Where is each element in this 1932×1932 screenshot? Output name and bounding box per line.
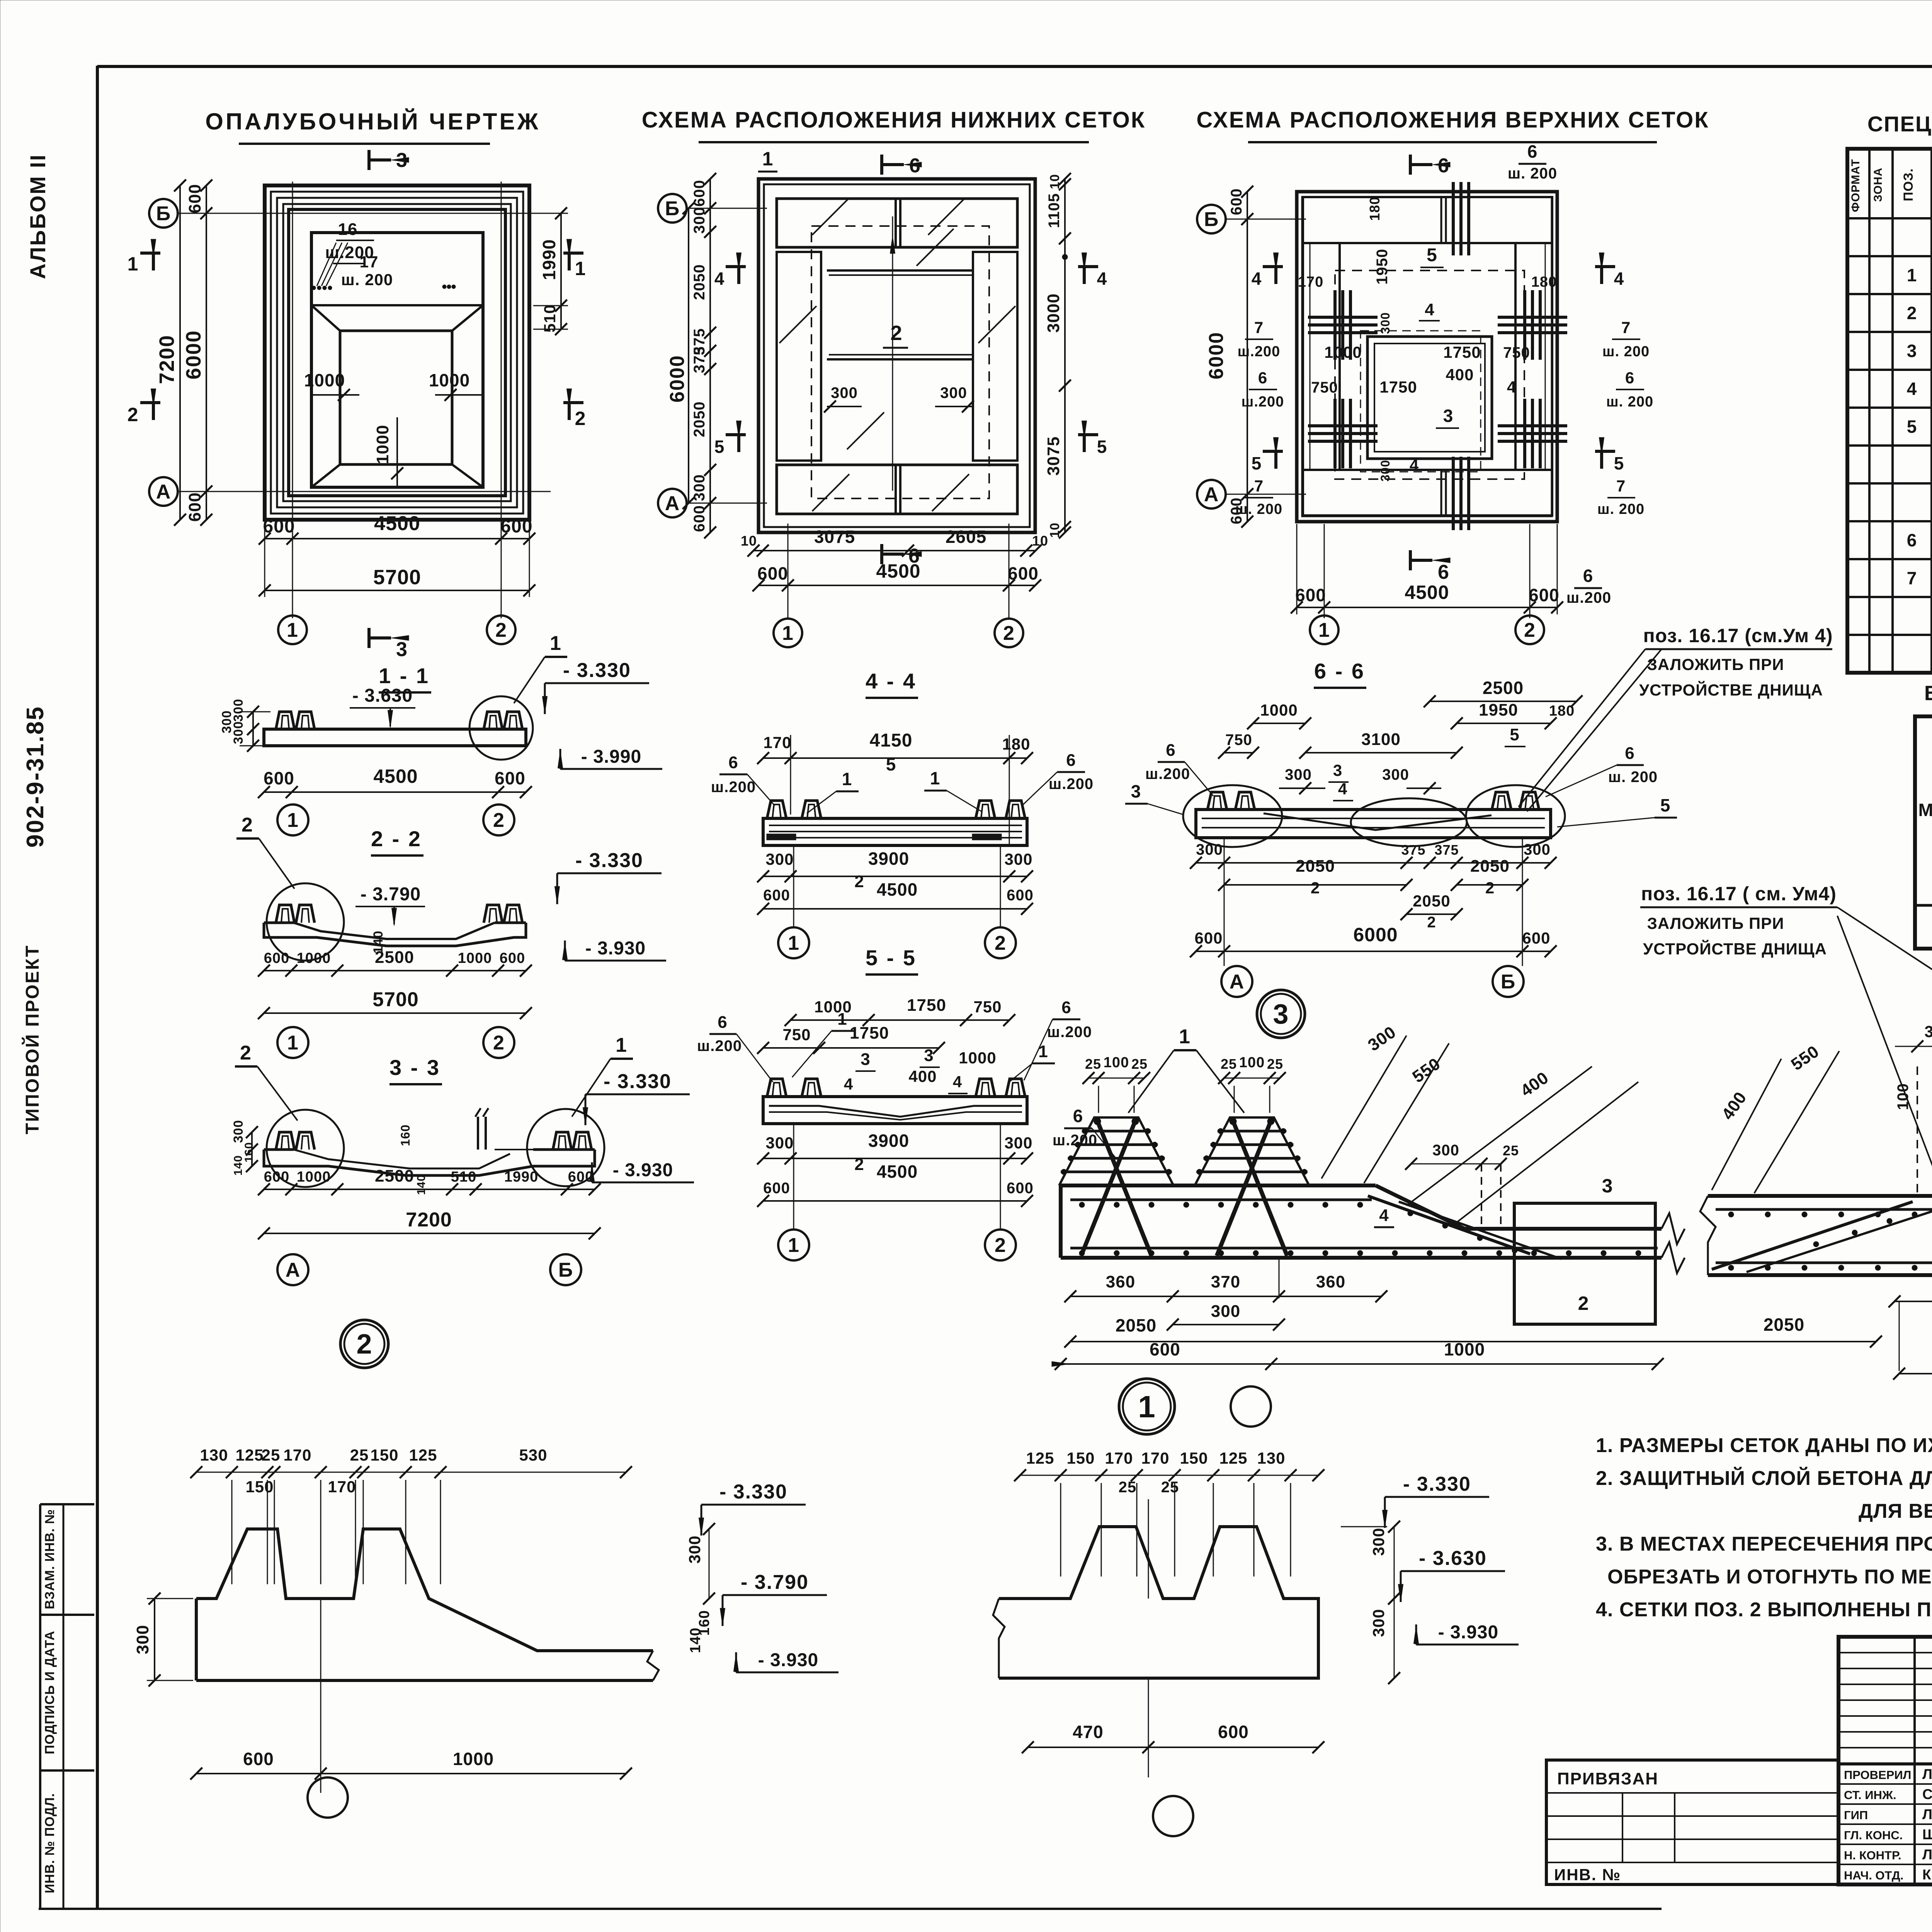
svg-text:300: 300 bbox=[1924, 1022, 1932, 1041]
svg-text:4: 4 bbox=[1338, 780, 1347, 798]
section 6-6 axis circles bbox=[1221, 966, 1252, 997]
svg-text:1000: 1000 bbox=[297, 950, 331, 966]
svg-text:1105: 1105 bbox=[1046, 193, 1063, 228]
svg-text:600: 600 bbox=[1529, 585, 1560, 605]
section 3-3 upstand pipe bbox=[477, 1117, 479, 1150]
svg-text:ш.200: ш.200 bbox=[1145, 765, 1190, 782]
svg-text:1000: 1000 bbox=[304, 370, 345, 390]
detail centre top dims bbox=[1020, 1475, 1318, 1476]
svg-text:600: 600 bbox=[757, 563, 788, 583]
svg-text:ГЛ. КОНС.: ГЛ. КОНС. bbox=[1844, 1828, 1903, 1842]
plan1 section mark 3 bottom bbox=[367, 628, 371, 648]
plan1 section marks 1 and 2 left bbox=[140, 252, 160, 255]
svg-text:1 - 1: 1 - 1 bbox=[379, 663, 430, 688]
svg-text:100: 100 bbox=[1895, 1083, 1912, 1110]
svg-text:5: 5 bbox=[886, 754, 896, 774]
svg-text:1950: 1950 bbox=[1374, 249, 1391, 285]
svg-text:10: 10 bbox=[1048, 174, 1062, 189]
svg-text:25: 25 bbox=[350, 1446, 369, 1464]
svg-text:25: 25 bbox=[262, 1446, 281, 1464]
svg-text:ш. 200: ш. 200 bbox=[1597, 501, 1645, 517]
svg-text:10: 10 bbox=[1032, 533, 1048, 549]
svg-text:3: 3 bbox=[1333, 761, 1342, 779]
svg-text:1: 1 bbox=[1038, 1042, 1048, 1061]
svg-text:600: 600 bbox=[500, 950, 525, 966]
svg-text:300: 300 bbox=[1432, 1142, 1459, 1159]
section 5-5 top dims bbox=[791, 1019, 1009, 1021]
svg-text:ВЕДОМОСТЬ РАСХОДА СТАЛИ: ВЕДОМОСТЬ РАСХОДА СТАЛИ НА ЭЛЕМЕНТ, КГ bbox=[1924, 682, 1932, 705]
svg-text:АЛЬБОМ II: АЛЬБОМ II bbox=[26, 154, 50, 279]
svg-text:1: 1 bbox=[1138, 1389, 1156, 1424]
svg-text:2: 2 bbox=[356, 1329, 372, 1360]
svg-text:1000: 1000 bbox=[959, 1049, 996, 1067]
svg-text:ЗОНА: ЗОНА bbox=[1872, 167, 1884, 202]
section 2-2 slab with dip bbox=[264, 923, 526, 946]
svg-text:УСТРОЙСТВЕ ДНИЩА: УСТРОЙСТВЕ ДНИЩА bbox=[1639, 680, 1823, 699]
svg-text:2050: 2050 bbox=[691, 401, 708, 437]
svg-text:100: 100 bbox=[1104, 1054, 1129, 1071]
svg-text:25: 25 bbox=[1131, 1056, 1148, 1072]
big section left slab outline bbox=[1061, 1184, 1376, 1187]
plan1 section mark 3 top bbox=[367, 150, 371, 170]
title block horizontals upper-left small rows bbox=[1838, 1652, 1932, 1653]
svg-text:400: 400 bbox=[908, 1067, 937, 1085]
svg-text:25: 25 bbox=[1267, 1056, 1283, 1072]
svg-text:ш. 200: ш. 200 bbox=[1606, 394, 1653, 410]
svg-text:2500: 2500 bbox=[375, 1167, 414, 1185]
svg-text:поз. 16.17 ( см. Ум4): поз. 16.17 ( см. Ум4) bbox=[1641, 883, 1837, 905]
svg-text:600: 600 bbox=[495, 768, 526, 788]
section 5-5 axis circles bbox=[778, 1230, 809, 1260]
plan2 mesh strips bbox=[777, 199, 1017, 247]
svg-text:2050: 2050 bbox=[1116, 1315, 1156, 1335]
svg-text:Б: Б bbox=[1204, 208, 1219, 231]
svg-text:ш. 200: ш. 200 bbox=[1508, 165, 1557, 182]
plan1 axis circle 2 bbox=[487, 616, 515, 644]
title block left extension bbox=[1546, 1760, 1838, 1884]
svg-text:170: 170 bbox=[763, 733, 791, 752]
svg-text:180: 180 bbox=[1367, 196, 1383, 221]
section 3-3 slab bbox=[264, 1150, 595, 1175]
svg-text:100: 100 bbox=[1239, 1054, 1265, 1071]
svg-text:2: 2 bbox=[493, 809, 505, 832]
section 4-4 axis circles bbox=[778, 927, 809, 958]
section 4-4 top dims bbox=[763, 757, 1027, 759]
svg-text:- 3.930: - 3.930 bbox=[613, 1160, 673, 1180]
svg-text:600: 600 bbox=[1194, 929, 1223, 947]
svg-text:140: 140 bbox=[415, 1174, 428, 1195]
svg-text:300: 300 bbox=[231, 1120, 246, 1143]
svg-text:МАРКА ЭЛЕМЕНТА: МАРКА ЭЛЕМЕНТА bbox=[1918, 800, 1932, 820]
svg-text:300: 300 bbox=[219, 710, 234, 733]
svg-text:СПЕЦИФИКАЦИЯ К СХЕМЕ РАС: СПЕЦИФИКАЦИЯ К СХЕМЕ РАСПОЛОЖЕНИЯ АРМАТУ… bbox=[1867, 112, 1932, 136]
steel table grid bbox=[1915, 716, 1932, 949]
svg-text:4500: 4500 bbox=[877, 1162, 918, 1182]
svg-text:530: 530 bbox=[519, 1446, 547, 1464]
svg-text:170: 170 bbox=[283, 1446, 311, 1464]
title block main frame bbox=[1838, 1637, 1932, 1884]
svg-text:4: 4 bbox=[1252, 269, 1262, 289]
svg-text:2: 2 bbox=[241, 814, 253, 836]
section 5-5 slab bbox=[763, 1097, 1027, 1124]
plan2 centre axis line bbox=[892, 216, 893, 491]
detail centre bottom dims bbox=[1028, 1747, 1318, 1748]
svg-text:3: 3 bbox=[1602, 1175, 1613, 1197]
plan1 nested formwork rectangles bbox=[265, 185, 529, 520]
svg-text:ФОРМАТ: ФОРМАТ bbox=[1849, 159, 1862, 212]
svg-text:2050: 2050 bbox=[691, 264, 708, 300]
svg-text:4: 4 bbox=[1425, 300, 1434, 319]
section 1-1 slab bbox=[264, 729, 526, 746]
svg-text:750: 750 bbox=[1225, 731, 1252, 748]
svg-text:Б: Б bbox=[156, 202, 171, 225]
svg-text:300: 300 bbox=[1369, 1609, 1388, 1637]
svg-text:поз. 16.17 (см.Ум 4): поз. 16.17 (см.Ум 4) bbox=[1643, 625, 1833, 646]
svg-text:- 3.930: - 3.930 bbox=[585, 938, 646, 959]
detail centre profile bbox=[999, 1527, 1318, 1678]
svg-text:125: 125 bbox=[1219, 1449, 1247, 1467]
svg-text:Б: Б bbox=[665, 197, 680, 220]
svg-text:1950: 1950 bbox=[1479, 701, 1518, 719]
section 6-6 top dims bbox=[1430, 701, 1577, 702]
svg-text:- 3.330: - 3.330 bbox=[575, 849, 643, 872]
svg-text:2: 2 bbox=[495, 619, 507, 641]
svg-text:6: 6 bbox=[718, 1013, 727, 1032]
svg-text:- 3.930: - 3.930 bbox=[758, 1650, 818, 1670]
svg-text:5: 5 bbox=[1907, 417, 1917, 437]
svg-text:6: 6 bbox=[1073, 1106, 1083, 1126]
svg-text:6: 6 bbox=[1527, 141, 1538, 162]
svg-text:2 - 2: 2 - 2 bbox=[371, 827, 422, 851]
svg-text:4 - 4: 4 - 4 bbox=[866, 669, 917, 693]
big section left long 2050 dim bbox=[1070, 1341, 1876, 1342]
svg-text:300: 300 bbox=[940, 384, 967, 401]
svg-text:УСТРОЙСТВЕ ДНИЩА: УСТРОЙСТВЕ ДНИЩА bbox=[1643, 939, 1827, 958]
svg-text:300: 300 bbox=[1378, 312, 1392, 334]
svg-text:4. СЕТКИ ПОЗ. 2 ВЫПОЛНЕНЫ: 4. СЕТКИ ПОЗ. 2 ВЫПОЛНЕНЫ ПО ГОСТ 23279 … bbox=[1596, 1599, 1932, 1621]
svg-text:2500: 2500 bbox=[375, 948, 414, 967]
big section left 300/25 dims bbox=[1411, 1163, 1501, 1165]
plan1 section marks 1 and 2 right bbox=[563, 252, 583, 255]
svg-text:7: 7 bbox=[1254, 318, 1264, 337]
plan1 bottom dims 600 4500 600 bbox=[265, 538, 529, 539]
big section left axis circles bbox=[1119, 1379, 1175, 1434]
detail 2 profile bbox=[196, 1529, 653, 1651]
svg-text:16: 16 bbox=[338, 220, 358, 239]
svg-text:125: 125 bbox=[1026, 1449, 1054, 1467]
plan1 right dims 1990 510 bbox=[560, 213, 562, 329]
svg-text:600: 600 bbox=[1218, 1722, 1249, 1742]
svg-text:ш.200: ш.200 bbox=[1566, 589, 1611, 606]
svg-text:7: 7 bbox=[1907, 568, 1917, 588]
svg-text:ш.200: ш.200 bbox=[1242, 394, 1284, 410]
svg-text:1. РАЗМЕРЫ СЕТОК ДАНЫ П: 1. РАЗМЕРЫ СЕТОК ДАНЫ ПО ИХ ГАБАРИТУ. bbox=[1596, 1434, 1932, 1457]
svg-text:1990: 1990 bbox=[504, 1169, 539, 1185]
svg-text:ГИП: ГИП bbox=[1844, 1808, 1868, 1822]
svg-text:130: 130 bbox=[200, 1446, 228, 1464]
svg-text:400: 400 bbox=[1446, 366, 1474, 384]
svg-text:3: 3 bbox=[1131, 781, 1141, 801]
svg-text:СХЕМА РАСПОЛОЖЕНИЯ ВЕРХНИХ: СХЕМА РАСПОЛОЖЕНИЯ ВЕРХНИХ СЕТОК bbox=[1196, 107, 1709, 133]
svg-text:1000: 1000 bbox=[1260, 701, 1298, 719]
svg-text:СТРОНГИН: СТРОНГИН bbox=[1922, 1786, 1932, 1802]
plan2 central mesh 2 dashed bbox=[811, 226, 989, 498]
svg-text:А: А bbox=[286, 1259, 301, 1281]
section 2-2 detail circle bbox=[267, 883, 344, 961]
section 2-2 bottom dims bbox=[264, 970, 526, 971]
svg-text:2: 2 bbox=[995, 1234, 1006, 1257]
svg-text:300: 300 bbox=[765, 1134, 794, 1152]
svg-text:2500: 2500 bbox=[1483, 678, 1524, 698]
section 1-1 bottom dims bbox=[264, 791, 526, 793]
svg-text:- 3.330: - 3.330 bbox=[1403, 1473, 1471, 1495]
svg-text:600: 600 bbox=[243, 1749, 274, 1769]
svg-text:300: 300 bbox=[133, 1625, 152, 1654]
svg-text:1: 1 bbox=[287, 809, 299, 832]
svg-text:3. В МЕСТАХ ПЕРЕСЕЧЕНИЯ: 3. В МЕСТАХ ПЕРЕСЕЧЕНИЯ ПРОСТРАНСТВЕННЫХ… bbox=[1596, 1533, 1932, 1555]
svg-text:А: А bbox=[1230, 971, 1245, 993]
svg-text:6 - 6: 6 - 6 bbox=[1314, 659, 1365, 683]
svg-text:1: 1 bbox=[1179, 1026, 1190, 1048]
svg-text:2: 2 bbox=[128, 404, 139, 425]
plan2 outer rect bbox=[759, 179, 1035, 532]
svg-text:1: 1 bbox=[1907, 265, 1917, 285]
plan2 bottom dims 600 4500 600 bbox=[759, 585, 1035, 586]
svg-text:1000: 1000 bbox=[297, 1169, 331, 1185]
svg-text:ПОДПИСЬ И ДАТА: ПОДПИСЬ И ДАТА bbox=[43, 1631, 57, 1754]
svg-text:1000: 1000 bbox=[1324, 343, 1362, 361]
svg-text:Б: Б bbox=[558, 1259, 573, 1281]
svg-text:2: 2 bbox=[1003, 622, 1015, 645]
svg-text:СТ. ИНЖ.: СТ. ИНЖ. bbox=[1844, 1788, 1896, 1802]
big section left break marks bbox=[1662, 1213, 1685, 1244]
section 4-4 slab bbox=[763, 818, 1027, 845]
svg-text:1: 1 bbox=[128, 253, 139, 275]
svg-text:2: 2 bbox=[240, 1042, 252, 1064]
svg-text:2: 2 bbox=[1524, 619, 1536, 641]
svg-text:300: 300 bbox=[1004, 1134, 1032, 1152]
svg-text:3000: 3000 bbox=[1044, 293, 1063, 333]
svg-text:1: 1 bbox=[287, 1032, 299, 1054]
svg-text:5: 5 bbox=[714, 437, 725, 457]
svg-text:ш.200: ш.200 bbox=[1049, 776, 1094, 793]
plan1 embed dots bbox=[312, 286, 316, 290]
svg-text:2605: 2605 bbox=[946, 527, 986, 547]
big section middle slab bbox=[1708, 1194, 1932, 1198]
svg-text:2: 2 bbox=[1578, 1293, 1589, 1314]
svg-text:3075: 3075 bbox=[1044, 436, 1063, 476]
svg-text:3900: 3900 bbox=[868, 849, 909, 869]
section 2-2 axis circles bbox=[277, 1027, 308, 1058]
svg-text:600: 600 bbox=[1007, 887, 1034, 904]
svg-text:1750: 1750 bbox=[850, 1024, 889, 1043]
svg-text:5: 5 bbox=[1097, 437, 1107, 457]
svg-text:600: 600 bbox=[185, 184, 204, 213]
sheet frame bbox=[96, 66, 99, 1909]
svg-text:4500: 4500 bbox=[374, 512, 420, 535]
svg-text:25: 25 bbox=[1221, 1056, 1237, 1072]
section 6-6 slab bbox=[1196, 810, 1551, 838]
plan2 bottom section 6 flag bbox=[880, 544, 883, 564]
svg-text:300: 300 bbox=[1285, 766, 1312, 783]
svg-text:25: 25 bbox=[1161, 1479, 1179, 1496]
svg-text:3: 3 bbox=[1273, 999, 1289, 1030]
svg-text:370: 370 bbox=[1211, 1272, 1240, 1291]
section 3-3 axis circles bbox=[277, 1254, 308, 1285]
detail 2 axis circle bbox=[308, 1777, 348, 1818]
svg-text:ИНВ. №: ИНВ. № bbox=[1554, 1866, 1621, 1884]
svg-text:600: 600 bbox=[1522, 929, 1550, 947]
svg-text:ЛОУЦКЕР: ЛОУЦКЕР bbox=[1922, 1766, 1932, 1782]
svg-text:150: 150 bbox=[370, 1446, 398, 1464]
big section middle slab rebar bbox=[1716, 1208, 1932, 1211]
svg-text:4: 4 bbox=[1507, 378, 1516, 396]
svg-text:600: 600 bbox=[1008, 563, 1039, 583]
svg-text:4: 4 bbox=[844, 1075, 853, 1093]
svg-text:- 3.790: - 3.790 bbox=[741, 1571, 809, 1594]
svg-text:4: 4 bbox=[714, 269, 725, 289]
svg-text:1000: 1000 bbox=[429, 370, 470, 390]
svg-text:6: 6 bbox=[1061, 998, 1071, 1017]
big section left teeth ladders bbox=[1059, 1117, 1173, 1185]
svg-text:300: 300 bbox=[1196, 841, 1223, 858]
svg-text:4500: 4500 bbox=[877, 879, 918, 900]
svg-text:2050: 2050 bbox=[1470, 857, 1510, 876]
section 6-6 bottom dims bbox=[1196, 862, 1551, 864]
big section: double circle 3 bbox=[1257, 990, 1305, 1038]
svg-text:ш.200: ш.200 bbox=[711, 779, 756, 796]
svg-text:2: 2 bbox=[1427, 914, 1436, 931]
svg-text:150: 150 bbox=[245, 1478, 274, 1496]
plan3 left section marks and ш.200 labels bbox=[1263, 265, 1283, 268]
svg-text:3: 3 bbox=[924, 1046, 934, 1065]
svg-text:600: 600 bbox=[263, 516, 295, 537]
svg-text:ТИПОВОЙ ПРОЕКТ: ТИПОВОЙ ПРОЕКТ bbox=[22, 944, 43, 1134]
svg-text:600: 600 bbox=[185, 492, 204, 522]
svg-text:3: 3 bbox=[396, 638, 408, 661]
svg-text:600: 600 bbox=[264, 950, 289, 966]
svg-text:- 3.630: - 3.630 bbox=[352, 685, 413, 706]
plan3 left dims bbox=[1247, 192, 1248, 522]
svg-text:ПРИВЯЗАН: ПРИВЯЗАН bbox=[1557, 1769, 1658, 1788]
svg-text:600: 600 bbox=[500, 516, 532, 537]
plan2 section marks 4,5 right bbox=[1078, 265, 1098, 268]
svg-text:6: 6 bbox=[1438, 155, 1449, 177]
svg-text:2: 2 bbox=[995, 932, 1006, 954]
svg-text:1: 1 bbox=[930, 768, 940, 788]
svg-text:1: 1 bbox=[788, 1234, 799, 1257]
big section left diagonal dim fan bbox=[1321, 1036, 1406, 1179]
svg-text:25: 25 bbox=[1119, 1479, 1137, 1496]
detail 2: double circle bbox=[340, 1320, 388, 1368]
big section left block 3 bbox=[1514, 1203, 1655, 1324]
svg-text:- 3.330: - 3.330 bbox=[719, 1481, 787, 1503]
svg-text:2050: 2050 bbox=[1413, 892, 1450, 910]
svg-text:150: 150 bbox=[1066, 1449, 1095, 1467]
svg-text:1: 1 bbox=[287, 619, 298, 641]
svg-text:2. ЗАЩИТНЫЙ СЛОЙ БЕТОНА: 2. ЗАЩИТНЫЙ СЛОЙ БЕТОНА ДЛЯ НИЖНИХ СЕТОК… bbox=[1596, 1467, 1932, 1490]
plan3 bar crosses bbox=[1333, 290, 1337, 360]
section 3-3 detail circles bbox=[267, 1110, 344, 1187]
svg-text:360: 360 bbox=[1316, 1272, 1345, 1291]
svg-text:4: 4 bbox=[1614, 269, 1624, 289]
plan3 top section 6 flag and ш.200 bbox=[1409, 155, 1412, 175]
svg-text:- 3.990: - 3.990 bbox=[581, 747, 641, 767]
plan3 dashed zones bbox=[1335, 270, 1524, 479]
section 5-5 bottom dims bbox=[763, 1158, 1027, 1159]
svg-text:Б: Б bbox=[1501, 971, 1515, 993]
svg-text:360: 360 bbox=[1106, 1272, 1135, 1291]
svg-text:1750: 1750 bbox=[1379, 378, 1417, 396]
svg-text:750: 750 bbox=[1311, 379, 1338, 396]
svg-text:ОПАЛУБОЧНЫЙ ЧЕРТЕЖ: ОПАЛУБОЧНЫЙ ЧЕРТЕЖ bbox=[205, 109, 540, 134]
svg-text:1750: 1750 bbox=[907, 996, 946, 1015]
svg-text:170: 170 bbox=[1141, 1449, 1169, 1467]
svg-text:6: 6 bbox=[1258, 369, 1267, 387]
svg-text:1000: 1000 bbox=[373, 425, 392, 464]
svg-text:5: 5 bbox=[1252, 453, 1262, 473]
svg-text:4500: 4500 bbox=[876, 560, 920, 582]
svg-text:Н. КОНТР.: Н. КОНТР. bbox=[1844, 1849, 1901, 1862]
svg-text:- 3.790: - 3.790 bbox=[361, 884, 421, 905]
svg-text:1: 1 bbox=[788, 932, 799, 954]
svg-text:170: 170 bbox=[1298, 274, 1323, 290]
svg-text:3100: 3100 bbox=[1361, 730, 1401, 749]
svg-text:300: 300 bbox=[691, 207, 708, 234]
title block verticals bbox=[1913, 1637, 1916, 1884]
svg-text:600: 600 bbox=[763, 887, 790, 904]
svg-text:4500: 4500 bbox=[1405, 582, 1449, 603]
svg-text:ЛОУЦКЕР: ЛОУЦКЕР bbox=[1922, 1806, 1932, 1822]
svg-text:180: 180 bbox=[1549, 703, 1575, 719]
svg-text:170: 170 bbox=[1105, 1449, 1133, 1467]
svg-text:2: 2 bbox=[854, 1155, 864, 1174]
svg-text:25: 25 bbox=[1503, 1143, 1519, 1158]
svg-text:ЗАЛОЖИТЬ ПРИ: ЗАЛОЖИТЬ ПРИ bbox=[1647, 914, 1784, 932]
svg-text:2050: 2050 bbox=[1764, 1315, 1804, 1335]
svg-text:600: 600 bbox=[1007, 1180, 1034, 1197]
detail 2 bottom dims bbox=[196, 1773, 626, 1774]
svg-text:6: 6 bbox=[728, 753, 738, 772]
svg-text:ОБРЕЗАТЬ И ОТОГНУТЬ ПО: ОБРЕЗАТЬ И ОТОГНУТЬ ПО МЕСТУ. bbox=[1607, 1566, 1932, 1588]
svg-text:600: 600 bbox=[763, 1180, 790, 1197]
svg-text:375: 375 bbox=[1434, 842, 1459, 858]
svg-text:1000: 1000 bbox=[458, 950, 492, 966]
svg-text:6: 6 bbox=[1438, 561, 1449, 583]
margin stamp boxes bbox=[40, 1503, 94, 1505]
svg-text:3: 3 bbox=[1443, 406, 1454, 426]
svg-text:ЗАЛОЖИТЬ ПРИ: ЗАЛОЖИТЬ ПРИ bbox=[1647, 655, 1784, 673]
svg-text:6000: 6000 bbox=[182, 330, 205, 379]
plan1 bottom dim 5700 bbox=[265, 590, 529, 591]
svg-text:300: 300 bbox=[1369, 1527, 1388, 1556]
svg-text:4150: 4150 bbox=[870, 730, 913, 751]
plan1 axis lines bbox=[178, 213, 551, 214]
plan1 axis circle А bbox=[149, 477, 178, 506]
svg-text:300: 300 bbox=[765, 850, 794, 868]
svg-text:- 3.330: - 3.330 bbox=[604, 1070, 672, 1093]
svg-text:3: 3 bbox=[396, 149, 408, 172]
plan2 left dim chain bbox=[709, 179, 711, 532]
svg-text:ш. 200: ш. 200 bbox=[1608, 769, 1658, 786]
svg-text:5: 5 bbox=[1510, 725, 1519, 744]
svg-text:300: 300 bbox=[1524, 841, 1551, 858]
svg-text:375: 375 bbox=[1401, 842, 1425, 858]
svg-text:5 - 5: 5 - 5 bbox=[866, 946, 917, 970]
section 6-6 bottom dims 600 6000 600 bbox=[1196, 951, 1551, 952]
svg-text:4: 4 bbox=[1097, 269, 1107, 289]
svg-text:6: 6 bbox=[1625, 369, 1634, 387]
